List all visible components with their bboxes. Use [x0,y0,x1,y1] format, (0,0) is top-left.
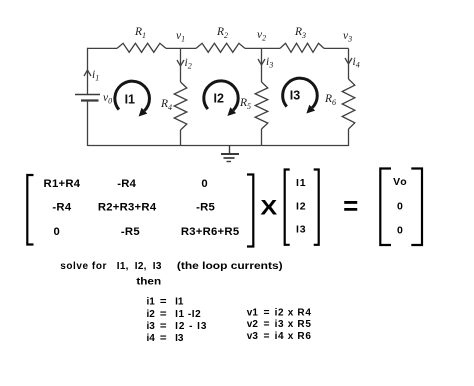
equation i1 = I1 [147,297,184,308]
svg-text:Vo: Vo [393,176,407,188]
svg-text:R1+R4: R1+R4 [44,178,81,190]
svg-text:i3 x R5: i3 x R5 [275,319,312,330]
loop current I2 [204,81,238,116]
svg-text:I1 -I2: I1 -I2 [175,309,201,320]
svg-text:v2: v2 [247,319,259,330]
equation v3 = i4 x R6 [247,331,312,342]
svg-text:I3: I3 [290,89,300,103]
wire R3 to top-right corner [324,47,349,49]
wire left branch lower [87,101,89,147]
resistor R1 [117,43,166,52]
svg-text:I1, I2, I3: I1, I2, I3 [117,261,162,272]
svg-text:I2: I2 [296,200,306,212]
resistor R6 [342,79,355,129]
svg-text:i4 x R6: i4 x R6 [275,331,312,342]
svg-text:v1: v1 [247,307,259,318]
svg-text:I3: I3 [296,224,306,236]
wire node v2 down [261,48,263,82]
svg-text:=: = [264,331,270,342]
resistor R2 [196,43,245,52]
svg-text:-R4: -R4 [52,202,71,214]
svg-text:i4: i4 [147,333,156,344]
current arrow i2 [177,60,184,66]
svg-text:0: 0 [397,200,404,212]
svg-text:=: = [160,309,167,320]
equation i2 = I1 -I2 [147,309,202,320]
equation v2 = i3 x R5 [247,319,312,330]
wire between R2 and node v2 [245,47,280,49]
svg-text:=: = [160,333,167,344]
resistor R3 [280,43,324,52]
svg-text:-R5: -R5 [121,226,140,238]
wire R6 to bottom [348,129,350,146]
svg-text:0: 0 [201,178,208,190]
svg-text:I2 - I3: I2 - I3 [175,321,207,332]
current arrow i4 [345,58,352,64]
svg-text:I2: I2 [213,92,223,106]
svg-text:i2: i2 [147,309,156,320]
wire R5 to bottom [261,129,263,146]
wire left branch upper [87,48,89,94]
svg-text:=: = [343,191,358,221]
svg-text:=: = [264,307,270,318]
svg-text:=: = [160,321,167,332]
battery v0 [75,94,100,96]
svg-text:then: then [136,277,161,288]
svg-text:i2 x R4: i2 x R4 [275,307,312,318]
wire bottom rail [88,145,349,147]
svg-text:=: = [264,319,270,330]
loop current I3 [283,78,318,113]
equation v1 = i2 x R4 [247,307,312,318]
loop current I1 [115,81,150,116]
current arrow i3 [258,59,265,65]
current vector right bracket [314,170,319,245]
svg-text:I1: I1 [296,177,306,189]
svg-text:I1: I1 [125,93,135,107]
matrix left bracket [27,175,33,245]
equation i3 = I2 - I3 [147,321,207,332]
wire R4 to bottom [180,130,182,146]
svg-text:=: = [160,297,167,308]
svg-text:0: 0 [397,224,404,236]
svg-text:-R5: -R5 [196,202,215,214]
wire top-left segment [88,47,118,49]
current vector left bracket [285,170,290,245]
equation i4 = I3 [147,333,184,344]
svg-text:i1: i1 [147,297,156,308]
current arrow i1 [84,70,91,76]
result vector left bracket [380,169,391,246]
svg-text:R2+R3+R4: R2+R3+R4 [98,202,157,214]
resistor R5 [255,82,268,129]
wire node v3 down [348,48,350,79]
svg-text:R3+R6+R5: R3+R6+R5 [181,226,240,238]
svg-text:(the loop currents): (the loop currents) [177,261,283,272]
svg-text:I3: I3 [175,333,184,344]
resistor R4 [174,82,187,130]
wire node v1 down [180,48,182,82]
matrix right bracket [247,175,253,247]
svg-text:I1: I1 [175,297,184,308]
svg-text:solve for: solve for [60,261,106,272]
wire between R1 and node v1 [166,47,196,49]
ground [221,146,239,162]
svg-text:v3: v3 [247,331,259,342]
svg-text:i3: i3 [147,321,156,332]
result vector right bracket [411,169,422,246]
svg-text:0: 0 [54,226,61,238]
svg-text:-R4: -R4 [117,178,136,190]
svg-text:X: X [260,196,278,220]
